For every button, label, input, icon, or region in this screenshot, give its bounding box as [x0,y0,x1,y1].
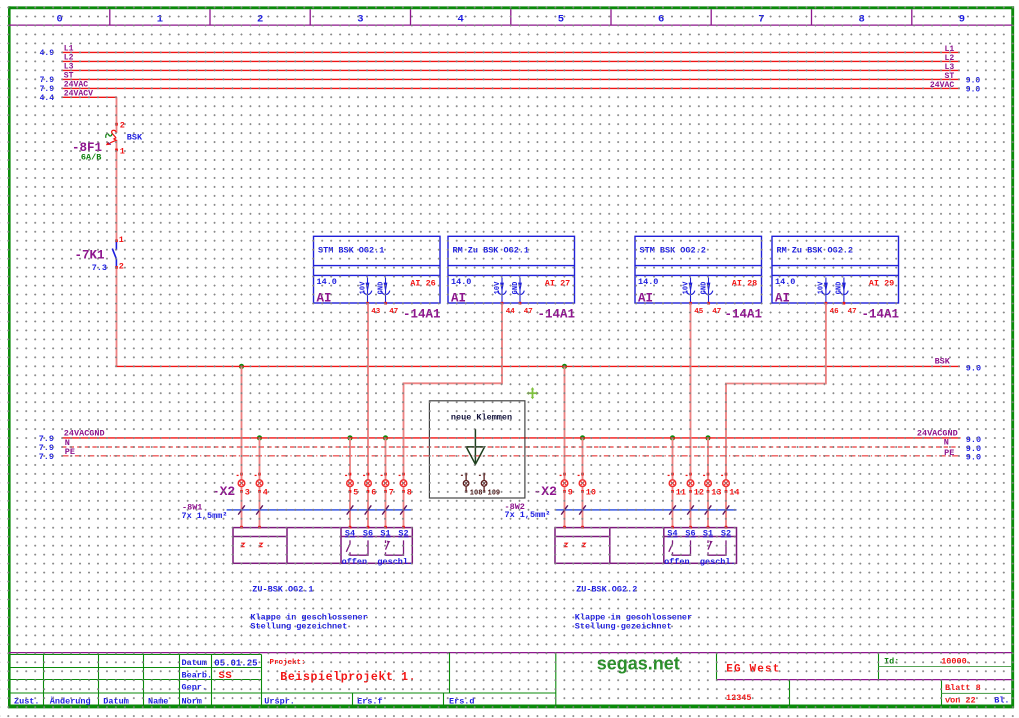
PLC box U2 pin dots [501,302,522,305]
svg-text:Datum: Datum [103,696,129,706]
svg-text:Urspr.: Urspr. [264,697,295,707]
wire PE (dash-dot) [62,455,960,457]
wire bus L3 [62,69,960,71]
wire 24VACGND to terminal 5 [349,438,351,528]
junction dots on BSK wire [239,364,567,369]
svg-text:1: 1 [120,147,125,157]
PLC box U2 pin symbol GND [516,278,525,303]
wire BSK horizontal [117,365,961,367]
svg-text:S2: S2 [398,529,408,539]
terminal -X2:5 [345,473,353,493]
PLC box U3 pin dots [689,302,710,305]
bus cross-references right (blue) [966,76,981,94]
wire bus L2 [62,60,960,62]
svg-text:S4: S4 [667,529,677,539]
svg-text:14.0: 14.0 [638,277,658,287]
svg-text:Datum: Datum [182,658,208,668]
svg-text:11: 11 [676,487,686,497]
svg-text:AI: AI [638,291,653,305]
svg-text:L3: L3 [64,62,74,71]
circuit breaker -8F1 [106,123,118,151]
svg-text:10: 10 [586,487,596,497]
svg-text:43: 43 [371,308,381,316]
svg-text:13: 13 [711,487,721,497]
svg-text:4.9: 4.9 [40,49,55,58]
svg-text:05.01.25: 05.01.25 [214,658,257,668]
wire U2 pin44 to terminal 8 (bend) [404,303,503,527]
wire 24VACGND to terminal 7 [385,438,387,528]
svg-text:8: 8 [858,13,864,25]
PLC box U4 RM Zu BSK OG2.2 [772,236,899,303]
device box 1 connection dots [240,526,405,529]
PLC box U1 STM BSK OG2.1 [314,236,441,303]
svg-text:Bearb.: Bearb. [182,670,213,680]
device box ZU-BSK OG2.1 outline [233,528,412,564]
svg-text:ST: ST [944,72,954,81]
svg-text:PE: PE [944,448,954,458]
wire U4 pin46 to terminal 14 (bend) [726,303,826,527]
terminal -X2:11 [668,473,676,493]
bus labels right (purple) [930,45,954,90]
svg-text:9: 9 [568,487,573,497]
GND labels right [917,429,958,458]
svg-text:109: 109 [488,489,501,497]
svg-text:6: 6 [658,13,664,25]
svg-text:L3: L3 [944,63,954,72]
svg-text:-14A1: -14A1 [862,307,900,321]
svg-text:14.0: 14.0 [775,277,795,287]
wire bus ST [62,78,960,80]
svg-text:neue Klemmen: neue Klemmen [451,413,512,423]
svg-text:1: 1 [119,235,124,245]
title block labels column [182,658,213,706]
PLC box U3 pin symbol GND [704,278,713,303]
device box 2 wire-end marks [564,543,585,547]
junction dots on 24VACGND wire [257,435,711,440]
PLC box U3 STM BSK OG2.2 [635,236,762,303]
svg-text:S2: S2 [721,529,731,539]
terminal -X2:10 [578,473,586,493]
svg-text:Projekt:: Projekt: [270,659,306,667]
svg-text:9.0: 9.0 [966,453,981,463]
device box 1 wire-end marks [241,543,262,547]
terminal -X2:3 [237,473,245,493]
switch labels S4 S6 S1 S2 (group 1) [345,529,409,539]
switch S4 (group 2) [669,540,691,555]
svg-text:Ers.f: Ers.f [357,697,383,707]
svg-text:AI 29: AI 29 [869,279,895,289]
svg-text:S4: S4 [345,529,355,539]
svg-text:GND: GND [512,282,520,295]
svg-text:AI 28: AI 28 [732,279,758,289]
svg-text:5: 5 [353,487,358,497]
svg-text:S6: S6 [363,529,373,539]
switch state labels (group 1) [342,557,414,567]
svg-text:GND: GND [700,282,708,295]
cable -8W2 line [556,509,737,511]
wire 24VACGND to terminal 11 [672,438,674,528]
svg-text:24VACV: 24VACV [64,89,93,98]
svg-text:segas.net: segas.net [597,654,680,674]
svg-text:4: 4 [457,13,463,25]
PLC box U3 pin symbol 10V [686,278,695,303]
svg-text:S6: S6 [685,529,695,539]
svg-text:12345: 12345 [726,693,752,703]
PLC box U2 RM Zu BSK OG2.1 [448,236,575,303]
svg-text:S1: S1 [380,529,390,539]
PLC box U2 pin symbol 10V [498,278,507,303]
svg-text:EG West: EG West [726,663,780,675]
svg-text:10V: 10V [818,281,826,294]
svg-text:Stellung gezeichnet: Stellung gezeichnet [575,621,672,631]
svg-text:AI 26: AI 26 [410,279,436,289]
svg-text:14.0: 14.0 [451,277,471,287]
wire U3 pin45 to terminal 12 [690,303,692,527]
svg-text:-X2: -X2 [212,484,236,499]
wire N (dashed) [62,446,960,448]
svg-text:8: 8 [407,487,412,497]
svg-text:offen: offen [342,557,368,567]
svg-text:9.0: 9.0 [966,363,981,373]
svg-text:7: 7 [389,487,394,497]
PLC box U4 pin dots [825,302,846,305]
svg-text:Stellung gezeichnet: Stellung gezeichnet [250,621,347,631]
svg-text:3: 3 [245,487,250,497]
svg-text:Name: Name [148,696,168,706]
wire 24VACV start segment [62,96,117,98]
column header band (purple) [9,9,1012,25]
wire below contact to BSK line [116,268,118,366]
svg-text:24VACGND: 24VACGND [64,429,105,439]
svg-text:Bl.: Bl. [994,696,1009,706]
svg-text:1: 1 [157,13,163,25]
svg-text:BSK: BSK [935,356,951,366]
svg-text:L1: L1 [944,45,954,54]
svg-text:45: 45 [694,308,704,316]
wire vertical feed 24VACV down [116,97,118,133]
wire bus L1 [62,51,960,53]
svg-text:7.9: 7.9 [40,85,55,94]
svg-text:L1: L1 [64,44,74,53]
svg-text:24VACGND: 24VACGND [917,429,958,439]
title block purple line under EG West [717,679,1013,681]
svg-text:AI 27: AI 27 [545,279,571,289]
title block values [214,658,257,682]
svg-text:-14A1: -14A1 [725,307,763,321]
terminal -X2:7 [381,473,389,493]
svg-text:2: 2 [257,13,263,25]
svg-text:-14A1: -14A1 [538,307,576,321]
title block green grid [9,653,1012,706]
svg-text:Id:: Id: [884,656,899,666]
svg-text:47: 47 [712,308,721,316]
svg-text:7x 1,5mm²: 7x 1,5mm² [505,510,551,520]
svg-text:ZU-BSK OG2.2: ZU-BSK OG2.2 [576,585,637,595]
annotation box neue Klemmen [429,401,525,498]
bottom purple frame line [9,652,1012,654]
svg-text:14.0: 14.0 [317,277,337,287]
svg-text:offen: offen [664,557,690,567]
relay contact -7K1 [112,239,118,268]
svg-text:12: 12 [694,487,704,497]
wire 24VACGND to terminal 4 [259,438,261,528]
svg-text:von 22: von 22 [945,696,976,706]
terminal -X2:14 [721,473,729,493]
bus labels left (purple) [64,44,93,98]
terminal -X2:6 [363,473,371,493]
svg-text:3: 3 [357,13,363,25]
svg-text:L2: L2 [64,53,74,62]
cable slash marks [238,505,729,514]
svg-text:4: 4 [263,487,268,497]
svg-text:0: 0 [56,13,62,25]
switch labels S4 S6 S1 S2 (group 2) [667,529,731,539]
GND labels left [64,429,105,457]
PLC box U1 pin symbol 10V [363,278,372,303]
svg-text:geschl.: geschl. [377,557,413,567]
svg-text:geschl.: geschl. [700,557,736,567]
svg-text:-14A1: -14A1 [403,307,441,321]
svg-text:L2: L2 [944,54,954,63]
terminal -X2:4 [255,473,263,493]
switch S1 (group 2) [708,540,726,555]
svg-text:Beispielprojekt 1.: Beispielprojekt 1. [280,671,416,684]
svg-text:RM Zu BSK OG2.1: RM Zu BSK OG2.1 [453,246,530,256]
PLC box U1 pin symbol GND [381,278,390,303]
svg-text:STM BSK OG2.1: STM BSK OG2.1 [318,246,384,256]
terminal -X2:9 [560,473,568,493]
wire 24VACGND to terminal 10 [582,438,584,528]
note Klappe group 2 [575,612,692,631]
svg-text:GND: GND [836,282,844,295]
column numbers 0-9 [56,13,965,25]
svg-text:2: 2 [120,120,125,130]
svg-text:AI: AI [775,291,790,305]
svg-text:ZU-BSK OG2.1: ZU-BSK OG2.1 [252,585,313,595]
GND cross-references left [39,434,54,462]
annotation arrow [466,429,484,464]
bus cross-references left (blue) [40,49,55,103]
switch S1 (group 1) [386,540,404,555]
device box 2 connection dots [563,526,727,529]
svg-text:9: 9 [959,13,965,25]
wire BSK to terminal 9 [564,366,566,527]
terminal 108 [461,473,469,493]
svg-text:RM Zu BSK OG2.2: RM Zu BSK OG2.2 [777,246,854,256]
svg-text:4.4: 4.4 [40,94,55,103]
wire BSK to terminal 3 [241,366,243,527]
GND cross-references right [966,435,981,463]
svg-text:46: 46 [830,308,840,316]
svg-text:Gepr.: Gepr. [182,683,208,693]
svg-text:47: 47 [389,308,398,316]
svg-text:2: 2 [119,262,124,272]
svg-text:Zust.: Zust. [14,696,40,706]
wire U1 pin43 to terminal 6 [367,303,369,527]
svg-text:10V: 10V [682,281,690,294]
cable -8W1 line [227,509,412,511]
svg-text:24VAC: 24VAC [64,80,88,89]
svg-text:47: 47 [848,308,857,316]
terminal -X2:13 [703,473,711,493]
svg-text:108: 108 [470,489,483,497]
PLC box U4 pin symbol 10V [822,278,831,303]
svg-text:7.3: 7.3 [92,263,107,273]
wire bus 24VAC [62,87,960,89]
svg-text:5: 5 [558,13,564,25]
title block bottom row labels [14,695,475,706]
svg-text:STM BSK OG2.2: STM BSK OG2.2 [640,246,706,256]
svg-text:-7K1: -7K1 [74,248,104,262]
svg-text:ST: ST [64,71,74,80]
PLC box U4 pin symbol GND [840,278,849,303]
note Klappe group 1 [250,612,367,631]
svg-text:S1: S1 [703,529,713,539]
svg-text:Norm: Norm [182,696,202,706]
svg-text:-X2: -X2 [534,484,558,499]
svg-text:6: 6 [371,487,376,497]
terminal -X2:12 [686,473,694,493]
svg-text:GND: GND [377,282,385,295]
svg-text:AI: AI [451,291,466,305]
terminal -X2:8 [399,473,407,493]
svg-text:BSK: BSK [127,133,143,143]
svg-text:47: 47 [524,308,533,316]
switch S4 (group 1) [346,540,368,555]
cursor move cross [526,387,538,399]
svg-text:PE: PE [65,447,75,457]
wire between breaker and contact [116,140,118,240]
svg-text:7: 7 [758,13,764,25]
svg-text:N: N [944,438,949,448]
svg-text:7.9: 7.9 [40,76,55,85]
svg-text:6A/B: 6A/B [81,152,101,162]
svg-text:44: 44 [506,308,516,316]
svg-text:AI: AI [317,291,332,305]
svg-text:9.0: 9.0 [966,85,981,94]
svg-text:10V: 10V [359,281,367,294]
wire 24VACGND to terminal 13 [707,438,709,528]
switch state labels (group 2) [664,557,736,567]
terminal 109 [479,473,487,493]
svg-text:24VAC: 24VAC [930,81,954,90]
device box ZU-BSK OG2.2 outline [555,528,737,564]
svg-text:9.0: 9.0 [966,76,981,85]
svg-text:7x 1,5mm²: 7x 1,5mm² [182,511,228,521]
svg-text:Ers.d: Ers.d [449,697,475,707]
svg-text:14: 14 [729,487,739,497]
svg-text:SS: SS [219,670,233,682]
svg-text:7.9: 7.9 [39,452,54,462]
svg-text:Blatt 8: Blatt 8 [945,683,981,693]
svg-text:10000.: 10000. [941,656,972,666]
svg-text:Änderung: Änderung [50,695,91,706]
svg-text:10V: 10V [494,281,502,294]
PLC box U1 pin dots [366,302,387,305]
wire 24VACGND [62,437,961,439]
